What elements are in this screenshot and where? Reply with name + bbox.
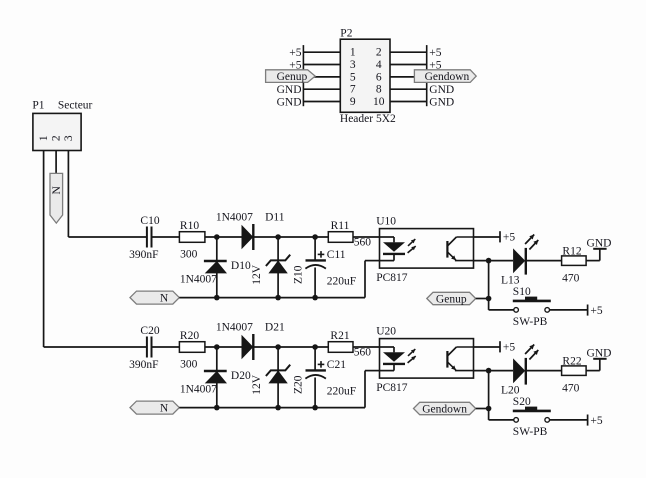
svg-text:D10: D10 bbox=[231, 260, 251, 272]
junction rail / zener bbox=[275, 405, 281, 411]
svg-text:+5: +5 bbox=[590, 305, 602, 317]
P2 pin number 5 bbox=[350, 71, 356, 83]
wire P2 pin 5 (left) bbox=[303, 76, 340, 78]
wire emitter to LED bbox=[474, 260, 514, 262]
svg-text:1N4007: 1N4007 bbox=[216, 212, 253, 224]
power GND (P2 pin10) bbox=[429, 97, 454, 109]
svg-text:220uF: 220uF bbox=[327, 275, 356, 287]
svg-text:GND: GND bbox=[587, 237, 612, 249]
junction rail / filter cap bbox=[312, 295, 318, 301]
svg-text:2: 2 bbox=[376, 47, 382, 59]
junction emitter node bbox=[486, 368, 492, 374]
svg-text:L13: L13 bbox=[501, 274, 520, 286]
P1 pin number 2 bbox=[51, 135, 63, 141]
junction rail / shunt diode bbox=[214, 295, 220, 301]
wire bottom rail bbox=[179, 261, 379, 298]
svg-text:+5: +5 bbox=[289, 47, 301, 59]
power GND (P2 pin7) bbox=[277, 84, 302, 96]
junction rail / shunt diode bbox=[214, 405, 220, 411]
power +5 (P2 pin3) bbox=[289, 60, 301, 72]
svg-text:+5: +5 bbox=[429, 47, 441, 59]
wire collector to +5 bbox=[474, 236, 501, 238]
power GND (P2 pin9) bbox=[277, 97, 302, 109]
ground GND bbox=[587, 237, 612, 249]
power +5 (P2 pin2) bbox=[429, 47, 441, 59]
net flag N (rail) bbox=[130, 401, 179, 414]
svg-text:12V: 12V bbox=[251, 374, 263, 395]
svg-text:PC817: PC817 bbox=[376, 382, 408, 394]
svg-text:300: 300 bbox=[180, 249, 198, 261]
wire P2 pin 3 (left) bbox=[303, 64, 340, 66]
wire bottom rail bbox=[179, 371, 379, 408]
wire R 560 to optocoupler anode pin 1 bbox=[353, 236, 380, 238]
capacitor C21 220uF (polarized) bbox=[305, 347, 356, 408]
power +5 (P2 pin4) bbox=[429, 60, 441, 72]
svg-text:+5: +5 bbox=[590, 415, 602, 427]
junction rail / zener bbox=[275, 295, 281, 301]
wire P2 pin 1 (left) bbox=[303, 51, 340, 53]
junction flag node bbox=[486, 406, 492, 412]
svg-text:SW-PB: SW-PB bbox=[513, 426, 548, 438]
svg-text:Header 5X2: Header 5X2 bbox=[340, 113, 396, 125]
junction emitter node bbox=[486, 258, 492, 264]
resistor R12 470 bbox=[562, 245, 587, 284]
svg-text:PC817: PC817 bbox=[376, 272, 408, 284]
svg-text:Gendown: Gendown bbox=[422, 403, 467, 415]
wire P2 pin 4 (right) bbox=[390, 64, 427, 66]
svg-text:560: 560 bbox=[354, 237, 372, 249]
svg-text:1N4007: 1N4007 bbox=[216, 322, 253, 334]
svg-text:D11: D11 bbox=[265, 212, 285, 224]
svg-text:GND: GND bbox=[277, 84, 302, 96]
svg-text:470: 470 bbox=[562, 272, 580, 284]
junction node at shunt diode bbox=[214, 344, 220, 350]
zener diode Z10 12V bbox=[251, 237, 305, 298]
svg-text:6: 6 bbox=[376, 71, 382, 83]
zener diode Z20 12V bbox=[251, 347, 305, 408]
svg-text:Z20: Z20 bbox=[293, 375, 305, 394]
svg-text:+5: +5 bbox=[503, 342, 515, 354]
svg-text:R10: R10 bbox=[180, 220, 199, 232]
P2 pin number 9 bbox=[350, 96, 356, 108]
svg-text:3: 3 bbox=[350, 59, 356, 71]
net flag Genup (emitter node) bbox=[427, 292, 476, 305]
wire switch to +5 bbox=[550, 309, 588, 311]
wire P2 pin 2 (right) bbox=[390, 51, 427, 53]
svg-text:470: 470 bbox=[562, 382, 580, 394]
connector P1 bbox=[32, 100, 92, 151]
LED 13 bbox=[501, 235, 538, 287]
junction flag node bbox=[486, 296, 492, 302]
wire emitter node down to switch bbox=[488, 261, 490, 310]
optocoupler U10 PC817 bbox=[376, 216, 473, 284]
svg-text:SW-PB: SW-PB bbox=[513, 316, 548, 328]
svg-text:U20: U20 bbox=[376, 326, 396, 338]
capacitor C11 220uF (polarized) bbox=[305, 237, 356, 298]
svg-text:N: N bbox=[51, 185, 63, 194]
net flag N (P1 pin 2, vertical) bbox=[50, 173, 63, 223]
svg-text:D21: D21 bbox=[265, 322, 285, 334]
P2 pin number 7 bbox=[350, 84, 356, 96]
ground GND bbox=[587, 347, 612, 359]
power +5 (P2 pin1) bbox=[289, 47, 301, 59]
junction node at filter cap bbox=[312, 344, 318, 350]
diode D20 1N4007 (shunt, anode on rail) bbox=[180, 347, 251, 408]
wire P2 pin 9 (left) bbox=[303, 101, 340, 103]
svg-text:10: 10 bbox=[373, 96, 385, 108]
svg-text:R11: R11 bbox=[331, 220, 350, 232]
wire R 560 to optocoupler anode pin 1 bbox=[353, 346, 380, 348]
wire flag to node bbox=[476, 408, 489, 410]
wire R to GND bbox=[586, 249, 600, 261]
svg-text:5: 5 bbox=[350, 71, 356, 83]
P2 pin number 8 bbox=[376, 84, 382, 96]
svg-text:N: N bbox=[160, 403, 169, 415]
net flag Genup (P2 pin 5) bbox=[266, 70, 316, 83]
P2 pin number 1 bbox=[350, 47, 356, 59]
junction node at zener bbox=[275, 344, 281, 350]
diode D11 1N4007 (series) bbox=[216, 212, 285, 251]
wire emitter node down to switch bbox=[488, 371, 490, 420]
svg-text:Genup: Genup bbox=[436, 293, 467, 305]
svg-text:12V: 12V bbox=[251, 264, 263, 285]
svg-text:C20: C20 bbox=[140, 325, 159, 337]
svg-text:GND: GND bbox=[587, 347, 612, 359]
svg-text:N: N bbox=[160, 293, 169, 305]
wire collector to +5 bbox=[474, 346, 501, 348]
svg-text:P1: P1 bbox=[32, 100, 44, 112]
svg-text:+5: +5 bbox=[503, 232, 515, 244]
svg-text:C10: C10 bbox=[140, 215, 159, 227]
svg-text:R12: R12 bbox=[562, 245, 581, 257]
svg-text:1: 1 bbox=[350, 47, 356, 59]
wire P2 pin 6 (right) bbox=[390, 76, 427, 78]
wire P1 pin2 to N flag bbox=[55, 151, 57, 174]
power +5 (switch) bbox=[588, 415, 603, 427]
wire LED to R (470) bbox=[526, 260, 562, 262]
capacitor C20 390nF bbox=[129, 325, 160, 371]
svg-text:GND: GND bbox=[429, 84, 454, 96]
svg-text:1N4007: 1N4007 bbox=[180, 383, 217, 395]
net flag Gendown (emitter node) bbox=[414, 402, 476, 415]
wire D to R (560) bbox=[253, 346, 328, 348]
svg-text:3: 3 bbox=[63, 135, 75, 141]
svg-text:GND: GND bbox=[277, 97, 302, 109]
svg-text:R21: R21 bbox=[330, 330, 349, 342]
resistor R10 300 bbox=[179, 220, 205, 261]
svg-text:GND: GND bbox=[429, 97, 454, 109]
wire emitter to LED bbox=[474, 370, 514, 372]
svg-text:U10: U10 bbox=[376, 216, 396, 228]
svg-text:7: 7 bbox=[350, 84, 356, 96]
svg-text:220uF: 220uF bbox=[327, 385, 356, 397]
svg-text:1N4007: 1N4007 bbox=[180, 273, 217, 285]
resistor R22 470 bbox=[562, 355, 587, 394]
svg-text:C21: C21 bbox=[327, 359, 346, 371]
junction node at zener bbox=[275, 234, 281, 240]
wire P1 pin1 down to lower rectifier row bbox=[44, 151, 147, 348]
power +5 (collector) bbox=[500, 231, 515, 243]
power GND (P2 pin8) bbox=[429, 84, 454, 96]
power +5 (switch) bbox=[588, 305, 603, 317]
svg-text:R22: R22 bbox=[562, 355, 581, 367]
resistor R21 560 bbox=[328, 330, 371, 359]
resistor R11 560 bbox=[328, 220, 371, 249]
wire P1 pin3 down to upper rectifier row bbox=[68, 151, 146, 238]
wire LED to R (470) bbox=[526, 370, 562, 372]
net flag Gendown (P2 pin 6) bbox=[414, 70, 476, 83]
LED 20 bbox=[501, 345, 538, 397]
wire switch to +5 bbox=[550, 419, 588, 421]
P1 pin number 3 bbox=[63, 135, 75, 141]
P2 pin number 2 bbox=[376, 47, 382, 59]
resistor R20 300 bbox=[179, 330, 205, 371]
connector P2 bbox=[340, 28, 396, 125]
svg-text:4: 4 bbox=[376, 59, 382, 71]
power bar left of P2 bbox=[302, 45, 304, 106]
wire D to R (560) bbox=[253, 236, 328, 238]
svg-text:390nF: 390nF bbox=[129, 249, 158, 261]
svg-text:1: 1 bbox=[38, 135, 50, 141]
svg-text:300: 300 bbox=[180, 359, 198, 371]
junction node at filter cap bbox=[312, 234, 318, 240]
svg-text:Z10: Z10 bbox=[293, 265, 305, 284]
svg-text:L20: L20 bbox=[501, 384, 520, 396]
svg-text:Secteur: Secteur bbox=[58, 100, 93, 112]
diode D10 1N4007 (shunt, anode on rail) bbox=[180, 237, 251, 298]
wire P2 pin 10 (right) bbox=[390, 101, 427, 103]
svg-text:S10: S10 bbox=[513, 286, 531, 298]
P1 pin number 1 bbox=[38, 135, 50, 141]
P2 pin number 4 bbox=[376, 59, 382, 71]
svg-text:560: 560 bbox=[354, 347, 372, 359]
svg-text:D20: D20 bbox=[231, 370, 251, 382]
junction node at shunt diode bbox=[214, 234, 220, 240]
wire P2 pin 8 (right) bbox=[390, 88, 427, 90]
net flag N (rail) bbox=[130, 291, 179, 304]
power bar right of P2 bbox=[426, 45, 428, 106]
wire flag to node bbox=[476, 298, 489, 300]
svg-text:390nF: 390nF bbox=[129, 359, 158, 371]
wire C to R bbox=[152, 236, 180, 238]
svg-text:P2: P2 bbox=[340, 28, 352, 40]
diode D21 1N4007 (series) bbox=[216, 322, 285, 361]
svg-text:S20: S20 bbox=[513, 396, 531, 408]
wire C to R bbox=[152, 346, 180, 348]
wire R to D (series diode) bbox=[205, 346, 242, 348]
power +5 (collector) bbox=[500, 341, 515, 353]
svg-text:Genup: Genup bbox=[277, 71, 308, 83]
switch S20 SW-PB bbox=[489, 396, 551, 438]
capacitor C10 390nF bbox=[129, 215, 160, 261]
svg-text:C11: C11 bbox=[327, 249, 346, 261]
wire R to D (series diode) bbox=[205, 236, 242, 238]
wire P2 pin 7 (left) bbox=[303, 88, 340, 90]
switch S10 SW-PB bbox=[489, 286, 551, 328]
P2 pin number 3 bbox=[350, 59, 356, 71]
svg-text:R20: R20 bbox=[180, 330, 199, 342]
P2 pin number 10 bbox=[373, 96, 385, 108]
junction rail / filter cap bbox=[312, 405, 318, 411]
svg-text:Gendown: Gendown bbox=[425, 71, 470, 83]
wire R to GND bbox=[586, 359, 600, 371]
svg-text:9: 9 bbox=[350, 96, 356, 108]
svg-text:2: 2 bbox=[51, 135, 63, 141]
optocoupler U20 PC817 bbox=[376, 326, 473, 394]
P2 pin number 6 bbox=[376, 71, 382, 83]
svg-text:8: 8 bbox=[376, 84, 382, 96]
